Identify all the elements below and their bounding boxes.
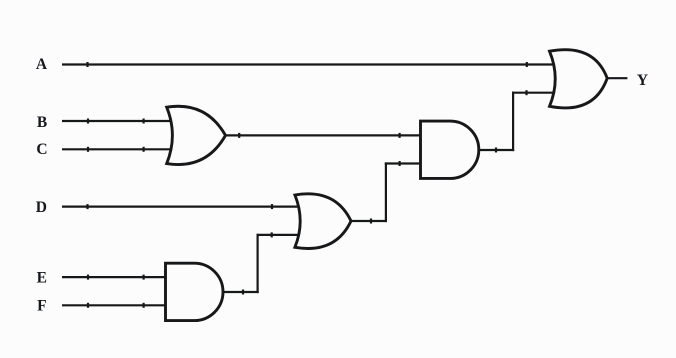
- wire OR1 output to AND2 input: [226, 134, 425, 136]
- tick on wire D left: [86, 204, 88, 209]
- tick on OR3 lower input: [525, 90, 527, 95]
- wire D: [62, 206, 302, 208]
- tick on wire B right: [143, 119, 145, 124]
- wire vertical from AND2 output up: [512, 92, 514, 152]
- tick on OR2 lower input: [271, 232, 273, 237]
- svg-text:B: B: [37, 114, 47, 131]
- wire into OR2 lower input: [257, 234, 303, 236]
- wire output Y: [607, 77, 627, 79]
- or-gate OR1 (inputs B,C): [167, 106, 226, 164]
- tick on AND1 output: [242, 290, 244, 295]
- svg-text:E: E: [37, 270, 47, 287]
- wire C: [62, 148, 176, 150]
- wire F: [62, 304, 172, 306]
- wire vertical from OR2 output up: [385, 162, 387, 222]
- tick on wire F right: [143, 303, 145, 308]
- or-gate OR2 (inputs D and AND1 output): [295, 194, 351, 249]
- tick on wire A left: [86, 62, 88, 67]
- wire OR2 output: [351, 220, 387, 222]
- wire A: [62, 63, 556, 65]
- wire into AND2 lower input: [385, 162, 424, 164]
- svg-text:F: F: [37, 297, 46, 314]
- svg-text:A: A: [36, 56, 48, 73]
- tick on OR2 output: [370, 219, 372, 224]
- and-gate AND1 (inputs E,F): [166, 263, 224, 320]
- wire into OR3 lower input: [512, 92, 553, 94]
- tick on wire D right: [271, 204, 273, 209]
- tick on wire E right: [143, 275, 145, 280]
- tick on OR1 output right (AND2 upper input): [399, 133, 401, 138]
- tick on wire F left: [87, 303, 89, 308]
- tick on OR1 output left: [238, 133, 240, 138]
- tick on wire A right: [526, 62, 528, 67]
- svg-text:C: C: [36, 141, 47, 158]
- tick on AND2 lower input: [399, 161, 401, 166]
- wire B: [62, 120, 176, 122]
- wire AND1 output: [223, 291, 259, 293]
- svg-text:Y: Y: [637, 72, 648, 89]
- tick on wire C right: [143, 147, 145, 152]
- svg-text:D: D: [36, 199, 47, 216]
- wire E: [62, 276, 172, 278]
- tick on AND2 output: [495, 148, 497, 153]
- tick on wire C left: [87, 147, 89, 152]
- and-gate AND2 (inputs OR1 output and OR2 output): [421, 121, 479, 178]
- tick on wire B left: [87, 119, 89, 124]
- wire vertical from AND1 output up: [257, 234, 259, 293]
- or-gate OR3 (inputs A and AND2 output, output Y): [550, 50, 608, 108]
- tick on wire E left: [87, 275, 89, 280]
- wire AND2 output: [479, 149, 514, 151]
